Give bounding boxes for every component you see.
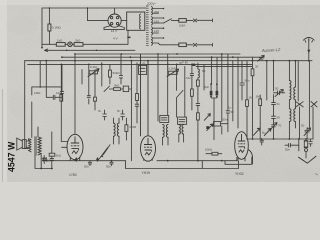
- svg-text:5kΩ: 5kΩ: [114, 84, 120, 88]
- svg-text:30: 30: [255, 65, 259, 69]
- svg-text:1M: 1M: [249, 96, 254, 100]
- svg-text:70: 70: [278, 124, 282, 128]
- svg-text:50: 50: [231, 110, 235, 114]
- svg-text:0,1MΩ: 0,1MΩ: [52, 26, 62, 30]
- svg-text:0,8A: 0,8A: [179, 24, 185, 28]
- svg-text:220: 220: [154, 10, 159, 14]
- svg-text:125: 125: [154, 29, 159, 33]
- svg-text:50n: 50n: [285, 148, 290, 152]
- svg-text:0,05: 0,05: [140, 62, 146, 66]
- svg-text:10n: 10n: [186, 76, 191, 80]
- svg-text:YH33: YH33: [235, 172, 244, 176]
- svg-text:6μ: 6μ: [262, 131, 266, 135]
- svg-text:10n: 10n: [56, 91, 61, 95]
- svg-text:1MΩ: 1MΩ: [34, 91, 41, 95]
- svg-text:1n: 1n: [228, 106, 232, 110]
- svg-text:50: 50: [275, 87, 279, 91]
- svg-text:Ausser-LZ: Ausser-LZ: [261, 47, 281, 53]
- svg-text:0,3M: 0,3M: [130, 125, 137, 129]
- svg-text:1M: 1M: [256, 95, 261, 99]
- svg-text:10kΩ: 10kΩ: [205, 148, 213, 152]
- svg-text:5n: 5n: [117, 109, 121, 113]
- svg-text:50n: 50n: [106, 165, 111, 169]
- svg-text:μμF 80: μμF 80: [179, 61, 188, 65]
- svg-text:50: 50: [202, 69, 206, 73]
- svg-text:50: 50: [301, 124, 305, 128]
- svg-text:0,1M: 0,1M: [90, 65, 97, 69]
- svg-text:50: 50: [277, 116, 281, 120]
- svg-text:1783: 1783: [69, 173, 77, 177]
- svg-text:50n: 50n: [245, 79, 250, 83]
- svg-text:220V~: 220V~: [146, 2, 156, 6]
- svg-text:50n: 50n: [223, 118, 228, 122]
- svg-text:0,1MΩ: 0,1MΩ: [168, 67, 178, 71]
- svg-text:4547 W: 4547 W: [6, 141, 16, 172]
- svg-text:50kΩ: 50kΩ: [113, 71, 121, 75]
- svg-text:150: 150: [154, 20, 159, 24]
- svg-text:5n: 5n: [98, 109, 102, 113]
- svg-text:2kΩ: 2kΩ: [56, 153, 62, 157]
- svg-text:8μF: 8μF: [204, 85, 209, 89]
- svg-text:50n: 50n: [47, 158, 52, 162]
- svg-text:YH19: YH19: [142, 171, 151, 175]
- svg-text:12 V: 12 V: [111, 29, 118, 33]
- svg-text:50n: 50n: [84, 165, 89, 169]
- svg-text:5n: 5n: [277, 102, 281, 106]
- svg-text:2kΩ: 2kΩ: [75, 39, 81, 43]
- svg-text:1kΩ: 1kΩ: [57, 39, 63, 43]
